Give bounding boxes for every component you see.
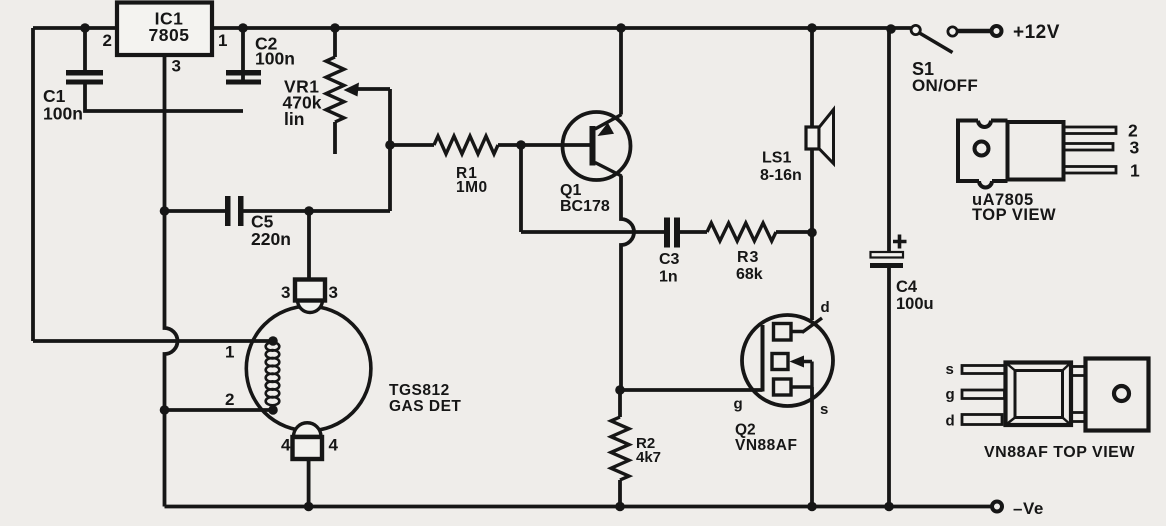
svg-text:s: s bbox=[946, 361, 954, 378]
svg-text:4: 4 bbox=[281, 436, 291, 455]
svg-text:100u: 100u bbox=[896, 295, 934, 313]
svg-text:1n: 1n bbox=[659, 269, 678, 286]
svg-text:C3: C3 bbox=[659, 251, 680, 268]
svg-text:Q1: Q1 bbox=[560, 182, 581, 199]
svg-text:68k: 68k bbox=[736, 266, 763, 283]
svg-text:C4: C4 bbox=[896, 278, 918, 296]
svg-text:4: 4 bbox=[329, 436, 339, 455]
svg-text:2: 2 bbox=[225, 390, 234, 409]
svg-text:TOP VIEW: TOP VIEW bbox=[972, 206, 1056, 224]
svg-text:g: g bbox=[946, 386, 955, 403]
svg-text:–Ve: –Ve bbox=[1013, 499, 1044, 518]
svg-text:lin: lin bbox=[284, 109, 304, 129]
svg-text:2: 2 bbox=[103, 31, 112, 50]
svg-text:3: 3 bbox=[1130, 138, 1140, 158]
svg-text:GAS DET: GAS DET bbox=[389, 398, 461, 415]
svg-text:3: 3 bbox=[172, 57, 181, 76]
svg-text:ON/OFF: ON/OFF bbox=[912, 76, 978, 95]
svg-text:1: 1 bbox=[1130, 161, 1140, 181]
svg-text:d: d bbox=[821, 299, 830, 316]
svg-text:BC178: BC178 bbox=[560, 198, 610, 215]
svg-text:220n: 220n bbox=[251, 229, 291, 249]
svg-text:+12V: +12V bbox=[1013, 22, 1060, 43]
svg-text:d: d bbox=[946, 413, 955, 430]
svg-text:g: g bbox=[734, 396, 743, 413]
svg-text:LS1: LS1 bbox=[762, 150, 791, 167]
svg-text:3: 3 bbox=[329, 283, 338, 302]
svg-text:1M0: 1M0 bbox=[456, 179, 488, 196]
svg-text:3: 3 bbox=[281, 283, 290, 302]
svg-text:1: 1 bbox=[218, 31, 227, 50]
svg-text:1: 1 bbox=[225, 343, 234, 362]
svg-text:7805: 7805 bbox=[149, 25, 190, 45]
svg-text:R3: R3 bbox=[737, 249, 759, 266]
svg-text:Q2: Q2 bbox=[735, 422, 756, 439]
svg-text:100n: 100n bbox=[255, 49, 295, 69]
svg-text:s: s bbox=[820, 401, 828, 418]
svg-text:4k7: 4k7 bbox=[636, 449, 661, 466]
svg-text:VN88AF: VN88AF bbox=[735, 437, 797, 454]
svg-text:TGS812: TGS812 bbox=[389, 382, 450, 399]
svg-text:VN88AF TOP VIEW: VN88AF TOP VIEW bbox=[984, 444, 1135, 461]
svg-text:8-16n: 8-16n bbox=[760, 167, 802, 184]
svg-text:100n: 100n bbox=[43, 104, 83, 124]
